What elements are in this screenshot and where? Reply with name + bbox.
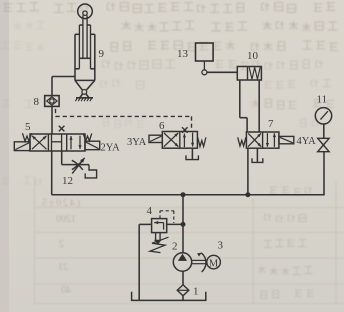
wire: valve 10 right port to valve 7 top [258, 80, 260, 132]
svg-text:2YA: 2YA [101, 143, 121, 154]
svg-text:13: 13 [177, 48, 189, 60]
svg-text:4: 4 [147, 205, 153, 217]
rotation direction arrow [197, 253, 206, 272]
wire: junction to relief valve 4 inlet [167, 223, 183, 225]
pilot-operated check valve 8 [45, 96, 59, 107]
pilot line (dashed) from check valve 8 to valve 6 [56, 109, 192, 129]
tank symbol at throttle 12 outlet [85, 165, 96, 178]
drive shaft pump-motor [192, 260, 207, 263]
wire: check valve 8 to valve 5 A-port [51, 106, 53, 134]
wire: valve 5 B-port to throttle valve 12 [62, 151, 89, 165]
filter 1 [177, 285, 189, 296]
throttle valve 12 [72, 158, 85, 174]
pressure switch 13 (box) [196, 43, 214, 75]
wire: shutoff valve down to pressure rail right end [323, 152, 325, 195]
wire: pump inlet down to filter 1 [182, 271, 184, 285]
pivot mount and ground hatching under cylinder 9 [75, 80, 95, 101]
roller wheel on cylinder 9 rod [78, 4, 93, 19]
junction: valve 7 feed [246, 193, 250, 197]
directional valve 7 (2-position 4-way, solenoid 4YA) body [246, 132, 279, 148]
hydraulic cylinder 9 (plunger type) [75, 15, 95, 80]
wire: valve 7 T-port to tank [256, 148, 258, 162]
svg-text:21: 21 [58, 262, 68, 273]
solenoid 3YA, valve 6 left [149, 135, 162, 142]
plugged port X above valve 5 [59, 126, 65, 132]
svg-text:(420±5: (420±5 [42, 198, 80, 209]
svg-text:M: M [209, 258, 219, 269]
svg-text:3YA: 3YA [127, 137, 147, 148]
svg-text:2: 2 [59, 239, 64, 250]
wire: cylinder 9 port to top of check valve 8 [52, 77, 75, 96]
svg-text:4YA: 4YA [297, 136, 317, 147]
spring, valve 6 right [198, 137, 206, 146]
wire: filter 1 to tank bottom [182, 296, 184, 301]
sequence valve 10 [237, 67, 261, 81]
tank (reservoir) [132, 292, 206, 301]
pilot line (dashed) of relief valve 4 [160, 211, 174, 223]
pressure gauge 11 [315, 108, 331, 124]
tank symbol under valve 6 [186, 155, 198, 159]
spring of relief valve 4 [150, 233, 169, 253]
spring, valve 7 left [238, 137, 246, 146]
pressure rail (main supply line) [52, 194, 325, 196]
electric motor 3 [207, 255, 221, 269]
wire: switch 13 to sequence valve 10 [207, 71, 237, 73]
junction: pump line to rail [181, 193, 185, 197]
svg-text:1: 1 [193, 286, 199, 298]
svg-text:11: 11 [317, 94, 328, 106]
svg-text:5: 5 [25, 121, 31, 133]
solenoid and spring, valve 5 right end (2YA) [83, 133, 99, 149]
tank symbol under valve 7 [252, 158, 263, 162]
wire: valve 6 to tank [191, 148, 193, 159]
wire: valve 7 P-port down to pressure rail [247, 148, 249, 195]
pump 2 [173, 253, 191, 271]
svg-text:3: 3 [218, 240, 224, 252]
svg-text:1200: 1200 [56, 214, 76, 225]
wire: rail down to pump 2 outlet [182, 195, 184, 254]
solenoid 4YA, valve 7 right [279, 136, 294, 143]
directional valve 6 (2-position, solenoid 3YA) body [162, 132, 197, 149]
wire: valve 10 left port to valve 7 top-left [240, 80, 247, 132]
relief valve 4 [152, 219, 167, 233]
svg-text:40: 40 [61, 285, 71, 296]
svg-text:7: 7 [268, 118, 274, 130]
junction: relief valve 4 branch [181, 222, 185, 226]
gauge shutoff valve (stop valve) [318, 138, 329, 151]
svg-text:8: 8 [34, 96, 40, 108]
wire: valve 5 P-port down to pressure rail [52, 151, 53, 195]
plugged port X above valve 6 [182, 127, 188, 133]
wire: relief valve 4 outlet to tank [139, 224, 151, 300]
solenoid and spring, valve 5 left end (1YA) [14, 133, 31, 150]
svg-text:10: 10 [247, 50, 259, 62]
svg-text:12: 12 [62, 175, 73, 187]
svg-text:6: 6 [159, 120, 165, 132]
svg-text:9: 9 [99, 48, 105, 60]
wire: gauge to shutoff valve [323, 124, 325, 138]
svg-text:2: 2 [172, 241, 178, 253]
directional valve 5 (3-position 4-way) body [30, 134, 85, 151]
